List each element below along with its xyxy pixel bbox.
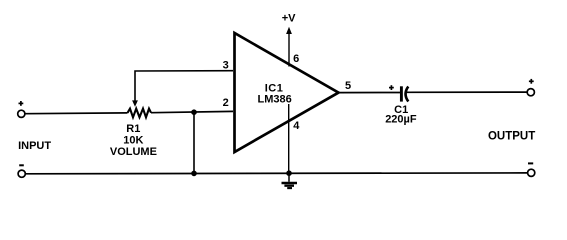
svg-text:5: 5 [345, 80, 351, 92]
svg-text:LM386: LM386 [257, 93, 291, 105]
svg-text:220µF: 220µF [385, 114, 417, 126]
svg-text:VOLUME: VOLUME [110, 146, 157, 158]
svg-text:4: 4 [293, 120, 300, 132]
svg-text:INPUT: INPUT [18, 140, 51, 152]
svg-text:+V: +V [282, 12, 296, 24]
svg-text:3: 3 [223, 60, 229, 72]
svg-text:6: 6 [293, 53, 299, 65]
svg-text:10K: 10K [123, 134, 143, 146]
svg-text:R1: R1 [126, 123, 140, 135]
svg-text:2: 2 [223, 97, 229, 109]
svg-text:OUTPUT: OUTPUT [488, 130, 535, 142]
